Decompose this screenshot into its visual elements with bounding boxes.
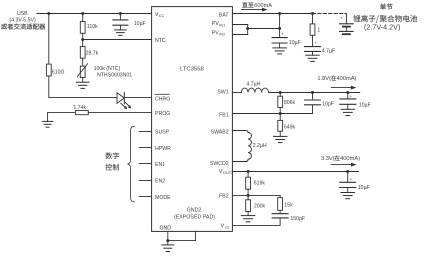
resistor 619k [246,172,266,196]
ground 649k [273,131,287,142]
pin GND [160,225,172,231]
node junction FB1 [279,112,282,115]
node junction FB2 [247,194,250,197]
svg-text:110k: 110k [87,24,98,30]
resistor 110k [80,21,98,33]
pin SUSP [155,130,170,136]
pin NTC [155,38,166,44]
resistor 610ohm [46,64,64,76]
svg-text:SWCD2: SWCD2 [210,161,229,167]
wire BAT dashed to battery [313,13,347,15]
capacitor 10pF [305,93,335,114]
svg-text:1: 1 [317,28,320,34]
svg-text:10µF: 10µF [358,185,370,191]
wire FB2 [232,194,280,196]
svg-text:+: + [350,177,353,182]
IC U1 LTC3558 body [152,7,233,232]
wire SWCD2 [232,159,248,161]
svg-text:+: + [350,94,353,99]
ground thermistor [76,82,89,88]
resistor 649k [278,114,296,132]
pin SWCD2 [210,161,229,167]
arrow charge current [241,8,267,12]
node junction VBUS-R110k [81,12,84,15]
node VBUS (USB input) label [1,11,45,29]
battery single cell Li-Ion [340,14,354,35]
capacitor 10uF Vcc [113,20,146,27]
wire PROG to IC [88,112,151,114]
node junction VBUS-R610 [47,12,50,15]
svg-text:619k: 619k [254,181,266,187]
label battery [353,4,417,32]
label VOUT1 1.8V [317,76,356,82]
ground 200k [241,212,255,222]
svg-text:28.7k: 28.7k [86,51,99,57]
pin PVIN2 [212,30,225,36]
svg-text:4.7µF: 4.7µF [322,49,335,55]
svg-text:C2: C2 [225,226,230,230]
svg-text:(2.7V-4.2V): (2.7V-4.2V) [364,22,400,31]
node junction BAT-R1 [311,12,314,15]
resistor 1ohm [310,24,320,35]
wire VBUS to Vcc [37,13,152,15]
svg-text:NTHS0603N01: NTHS0603N01 [97,73,132,79]
wire Vcc bypass cap branch [119,14,121,20]
svg-text:MODE: MODE [155,195,171,201]
svg-text:PROG: PROG [155,111,170,117]
svg-text:EN2: EN2 [155,179,165,185]
LED charge indicator [117,92,131,109]
node junction VOUT1-806k [279,91,282,94]
pin GND2 exposed pad [174,208,215,221]
arrow VOUT2 [332,163,357,167]
brace digital control [128,126,135,202]
svg-text:GND: GND [160,225,172,231]
pin VC2 [221,223,230,229]
pin CHRG [155,94,170,102]
svg-text:+: + [340,15,343,20]
resistor 806k [278,93,296,114]
svg-text:EN1: EN1 [155,162,165,168]
node junction VOUT1-10pF [311,91,314,94]
svg-text:610Ω: 610Ω [52,69,65,75]
wire EN1 [139,163,151,165]
ground PROG [42,113,53,128]
svg-text:+: + [281,32,284,37]
wire LED to CHRG pin [124,97,151,99]
wire VC2 [232,218,280,226]
node junction GND [166,239,169,242]
wire HPWR [139,147,151,149]
svg-text:FB1: FB1 [219,112,229,118]
svg-text:IN1: IN1 [219,23,225,27]
wire 110k to 28.7k [82,33,84,46]
capacitor 4.7uF [305,40,336,55]
ground VOUT2 cap [341,188,355,199]
capacitor 10uF VOUT2 [340,172,370,191]
svg-text:806k: 806k [284,100,296,106]
inductor 2.2uH [248,132,267,159]
wire MODE [139,196,151,198]
svg-text:10µF: 10µF [134,21,146,27]
wire NTC to IC [83,39,152,41]
resistor 15k [278,195,293,210]
inductor 4.7uH [241,82,268,93]
wire SUSP [139,131,151,133]
ground Vcc cap [115,30,127,35]
svg-text:SWAB2: SWAB2 [211,130,229,136]
svg-text:+: + [314,40,317,45]
node junction PVIN-C [278,27,281,30]
svg-text:CHRG: CHRG [155,96,170,102]
pin SWAB2 [211,130,229,136]
resistor 28.7k [80,46,98,58]
wire 28.7k to thermistor [82,58,84,66]
wire PROG left [48,112,76,114]
svg-text:1.8V(: 1.8V( [317,76,331,82]
svg-text:3.3V(: 3.3V( [321,156,335,162]
wire 610ohm branch upper [48,14,50,65]
node junction PVIN [246,27,249,30]
svg-text:PV: PV [212,30,219,36]
resistor 1.74k [73,105,88,115]
svg-text:400mA): 400mA) [340,156,360,162]
resistor 200k [246,195,266,211]
pin Vcc [155,12,165,18]
svg-text:PV: PV [212,21,219,27]
pin EN1 [155,162,165,168]
wire BAT cap branch [279,14,281,38]
svg-text:10µF: 10µF [289,40,301,46]
node junction VOUT1-cap [346,91,349,94]
svg-text:100k (NTC): 100k (NTC) [94,66,121,72]
wire PVIN1 stub [232,24,247,26]
node junction VOUT2-cap [346,170,349,173]
svg-text:(4.3V-5.5V): (4.3V-5.5V) [9,17,36,23]
svg-text:LTC3558: LTC3558 [180,66,205,72]
node junction VBUS-C10u [119,12,122,15]
svg-text:2.2µH: 2.2µH [253,143,267,149]
pin FB1 [219,112,229,118]
capacitor 10uF VOUT1 [340,93,371,109]
svg-text:1.74k: 1.74k [73,105,86,111]
pin FB2 [219,193,229,199]
wire EN2 [139,180,151,182]
svg-text:OUT2: OUT2 [223,171,233,175]
pin VOUT2 [219,169,233,175]
ground VOUT1 cap [341,104,355,115]
pin EN2 [155,179,165,185]
wire FB1 [232,113,312,115]
node junction NTC divider [81,38,84,41]
label charge current 600mA [242,2,272,9]
wire thermistor to ground [82,78,84,83]
thermistor 100k NTC NTHS0603N01 [77,64,132,79]
svg-text:HPWR: HPWR [155,146,171,152]
wire SWAB2 [232,131,248,133]
wire PVIN to cap [248,28,280,30]
svg-text:10pF: 10pF [322,101,334,107]
arrow VOUT1 [331,86,356,90]
pin SW1 [217,90,228,96]
wire R1 to cap [312,35,314,46]
wire 110k branch [82,14,84,22]
svg-text:FB2: FB2 [219,193,229,199]
label digital control [105,152,118,170]
wire BAT [232,13,312,15]
svg-text:400mA): 400mA) [337,76,357,82]
wire 610ohm to LED [49,76,117,98]
capacitor 10uF PVIN [272,32,301,47]
wire SW1 to inductor [232,92,241,94]
svg-text:200k: 200k [254,204,266,210]
wire VOUT2 [232,171,358,173]
wire R1 branch [312,14,314,24]
ground PVIN cap [273,43,287,54]
svg-text:SUSP: SUSP [155,130,170,136]
svg-text:BAT: BAT [219,12,230,18]
svg-text:15k: 15k [284,202,293,208]
svg-text:150pF: 150pF [290,216,305,222]
svg-text:USB: USB [17,11,28,17]
wire GND pin down [167,231,169,240]
capacitor 150pF [272,210,305,222]
ground main [162,241,174,252]
svg-text:IN2: IN2 [219,33,225,37]
wire PVIN2 stub [232,25,247,35]
svg-text:649k: 649k [284,124,296,130]
pin BAT [219,12,230,18]
svg-text:SW1: SW1 [217,90,228,96]
svg-text:4.7µH: 4.7µH [246,82,260,88]
pin PVIN1 [212,21,225,27]
svg-text:GND2: GND2 [187,208,202,214]
node junction BAT-C10u [278,12,281,15]
pin PROG [155,111,170,117]
wire exposed pad down [168,231,196,240]
svg-text:CC: CC [159,14,165,18]
ground 4.7uF cap [306,51,320,61]
pin HPWR [155,146,171,152]
pin MODE [155,195,171,201]
label VOUT2 3.3V [321,156,360,162]
svg-text:10µF: 10µF [359,102,371,108]
svg-text:NTC: NTC [155,38,166,44]
wire VOUT1 [269,92,360,94]
svg-text:(EXPOSED PAD): (EXPOSED PAD) [174,215,215,221]
node junction VOUT2-619k [247,170,250,173]
wire cap to ground [119,25,121,30]
